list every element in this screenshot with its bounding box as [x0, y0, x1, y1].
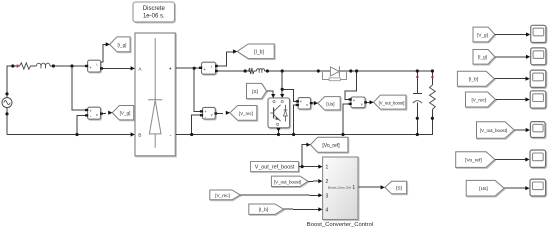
svg-text:[V_g]: [V_g] [477, 32, 488, 37]
svg-text:1e-06 s.: 1e-06 s. [143, 14, 165, 20]
goto tag V_rec [230, 106, 257, 121]
arrow into scope 2 [526, 55, 530, 59]
wire sensor to bridge A [101, 67, 131, 69]
node Vo_ref tap [301, 165, 304, 168]
from tag S [247, 83, 267, 98]
wire bridge plus output [175, 67, 200, 69]
wire I_b signal [216, 52, 233, 66]
svg-text:1: 1 [326, 165, 329, 171]
node cap to rail [416, 133, 419, 136]
svg-text:[Vo_ref]: [Vo_ref] [322, 143, 340, 149]
arrow into IGBT gate [271, 94, 275, 98]
goto tag V_out_boost [374, 95, 406, 109]
voltage measurement VM4 V_out [349, 97, 367, 108]
wire I_b tag to scope3 [494, 78, 526, 80]
from tag V_rec (scope row 4) [466, 92, 496, 107]
node IGBT collector tap [281, 69, 284, 72]
wire V_rec output [215, 112, 223, 114]
wire V_out_boost output [365, 101, 370, 103]
from tag Vo_ref (scope row 6) [456, 152, 495, 168]
node V_rec minus tap [190, 133, 193, 136]
wire RL to current sensor [50, 65, 87, 67]
wire I_b from-tag to port 4 [284, 208, 319, 210]
inductor Lb (boost branch, small) [257, 69, 265, 73]
voltage measurement VM2 [200, 107, 217, 119]
from tag I_g (scope row 2) [473, 50, 495, 65]
arrow into scope 3 [526, 77, 530, 81]
goto tag Vo_ref [311, 137, 348, 152]
node Rload top [431, 69, 434, 72]
from tag V_rec [210, 190, 240, 200]
wire S gate [267, 91, 274, 95]
scope 3 [530, 70, 546, 87]
arrow into V_out_boost tag [370, 100, 374, 104]
arrow into I_b tag [233, 49, 237, 53]
svg-text:[S]: [S] [252, 89, 258, 95]
node Us minus tap [292, 133, 295, 136]
wire V_out_boost plus branch [345, 71, 357, 99]
wire V_out_boost tag to scope5 [514, 129, 526, 131]
capacitor C (output) [413, 92, 422, 94]
wire capacitor branch top [416, 71, 418, 93]
from tag I_b (scope row 3) [457, 71, 494, 86]
wire V_g plus branch [72, 66, 86, 110]
node source-RL junction [11, 64, 14, 67]
node V_g minus tap [75, 133, 78, 136]
svg-text:1: 1 [352, 185, 355, 191]
resistor Rs (source branch) [20, 63, 37, 69]
scope 7 [530, 179, 546, 196]
arrow into port 4 [318, 207, 322, 211]
terminal marker red capacitor [416, 76, 418, 78]
svg-text:[I_g]: [I_g] [118, 42, 127, 47]
goto tag Us [318, 97, 340, 110]
node Us plus tap [281, 88, 284, 91]
svg-text:3: 3 [326, 193, 329, 199]
powergui block Discrete [133, 2, 175, 22]
arrow into port 2 [318, 179, 322, 183]
svg-text:Boost_Converter_Control: Boost_Converter_Control [307, 222, 373, 228]
constant V_out_ref_boost [251, 162, 299, 172]
wire V_g output [101, 113, 106, 115]
wire source bottom lead [6, 108, 8, 135]
arrow into scope 1 [526, 32, 530, 36]
svg-text:V_out_ref_boost: V_out_ref_boost [255, 165, 295, 171]
snubber network of diode D [323, 71, 347, 79]
terminal marker red Rload [431, 76, 433, 78]
svg-text:2: 2 [326, 179, 329, 185]
wire Vo_ref branch [302, 145, 306, 167]
wire V_rec plus branch [194, 68, 200, 111]
svg-text:[V_out_boost]: [V_out_boost] [274, 179, 301, 184]
terminal marker red source branch [17, 65, 19, 68]
scope 1 [531, 25, 546, 42]
wire Us tag to scope7 [504, 187, 526, 189]
svg-text:v: v [306, 103, 308, 107]
voltage measurement VM1 [85, 107, 103, 119]
svg-text:[Us]: [Us] [326, 101, 334, 106]
arrow into IGBT collector [280, 94, 284, 98]
arrow into Vo_ref tag [306, 143, 310, 147]
wire Us output [311, 102, 315, 104]
wire Us plus branch [282, 89, 296, 101]
from tag I_b [249, 204, 284, 214]
svg-text:[S]: [S] [396, 186, 402, 192]
from tag V_g (scope row 1) [473, 27, 495, 42]
svg-text:[V_rec]: [V_rec] [239, 111, 253, 116]
wire V_g tag to scope1 [495, 34, 526, 36]
wire capacitor branch bottom [416, 102, 418, 134]
arrow into Us tag [314, 101, 318, 105]
wire V_rec minus branch [192, 115, 201, 134]
arrow into bridge A [131, 66, 135, 70]
wire bottom-left rail to bridge B [7, 134, 131, 136]
svg-text:[V_rec]: [V_rec] [215, 193, 230, 198]
svg-text:[V_rec]: [V_rec] [472, 97, 487, 102]
arrow into I_g tag [106, 42, 110, 46]
svg-text:[Us]: [Us] [479, 186, 488, 192]
wire Vo_ref tag to scope6 [495, 159, 526, 161]
node V_out tap [355, 69, 358, 72]
node diode cathode [349, 69, 352, 72]
node capacitor bottom port [416, 117, 419, 120]
svg-text:+: + [89, 65, 92, 70]
node IGBT emitter tap [277, 133, 280, 136]
wire V_out_boost minus branch [343, 104, 350, 135]
arrow into V_g tag [108, 111, 112, 115]
arrow into scope 7 [525, 186, 529, 190]
wire constant to port 1 [299, 166, 319, 168]
from tag Us (scope row 7) [466, 180, 504, 196]
arrow into port 3 [318, 193, 322, 197]
svg-text:B: B [138, 133, 141, 139]
node source bottom port [5, 112, 8, 115]
current measurement CM1 [85, 60, 103, 72]
node capacitor top [416, 69, 419, 72]
node V_g tap [70, 64, 73, 67]
node boost RL left [244, 69, 247, 72]
resistor Rb (boost branch, small) [245, 68, 256, 74]
svg-text:[V_out_boost]: [V_out_boost] [379, 100, 405, 105]
svg-text:+: + [203, 67, 206, 72]
svg-text:4: 4 [326, 207, 329, 213]
svg-text:+: + [169, 67, 172, 73]
AC source V1 [2, 98, 12, 108]
universal bridge rectifier [135, 33, 175, 156]
from tag V_out_boost [271, 176, 308, 186]
wire IGBT collector branch [281, 71, 283, 95]
svg-text:v: v [96, 113, 98, 117]
arrow into scope 4 [526, 97, 530, 101]
svg-text:[I_b]: [I_b] [259, 207, 268, 213]
node V_rec plus tap [193, 67, 196, 70]
wire top rail left segment [216, 70, 245, 72]
wire V_rec tag to scope4 [495, 99, 525, 101]
arrow into port 1 [318, 165, 322, 169]
svg-text:[V_g]: [V_g] [120, 111, 131, 116]
node source top port [5, 92, 8, 95]
goto tag I_g [110, 37, 130, 52]
wire bottom-right rail [175, 134, 417, 136]
arrow into scope 6 [525, 157, 529, 161]
scope 4 [530, 91, 546, 108]
from tag V_out_boost (scope row 5) [477, 122, 515, 138]
svg-text:v: v [211, 113, 213, 117]
svg-text:-: - [170, 132, 172, 138]
wire V_g minus branch [77, 115, 86, 134]
svg-text:v: v [361, 102, 363, 106]
current measurement CM2 [199, 62, 218, 74]
scope 6 [530, 150, 546, 167]
wire V_rec from-tag to port 3 [240, 194, 318, 196]
node diode anode [317, 69, 320, 72]
node Rload bottom port [431, 117, 434, 120]
diode D boost [329, 66, 340, 81]
svg-text:Boost_Conv_Ctrl: Boost_Conv_Ctrl [328, 185, 351, 189]
IGBT switch block [268, 98, 290, 128]
svg-text:[I_g]: [I_g] [478, 55, 487, 60]
wire top rail right segment [265, 70, 433, 72]
arrow into V_rec tag [226, 111, 230, 115]
goto tag S output [385, 181, 407, 194]
wire V_out_boost from-tag to port 2 [308, 180, 319, 182]
arrow into S tag [381, 185, 385, 189]
svg-text:Discrete: Discrete [143, 6, 166, 12]
scope 5 [530, 122, 545, 138]
wire Us minus branch [294, 105, 297, 135]
arrow IGBT m port down [276, 128, 280, 132]
node boost RL right [266, 69, 269, 72]
arrow into bridge B [131, 132, 135, 136]
svg-text:[V_out_boost]: [V_out_boost] [480, 128, 507, 133]
goto tag I_b [237, 44, 274, 59]
wire source top lead [7, 66, 20, 98]
svg-text:[Vo_ref]: [Vo_ref] [465, 158, 482, 164]
scope 2 [531, 48, 546, 65]
wire I_g tag to scope2 [495, 56, 526, 58]
wire IGBT m to rail [278, 128, 280, 134]
voltage measurement VM3 Us [296, 98, 313, 109]
resistor Rload (output) [417, 71, 432, 135]
inductor Ls (source branch) [37, 63, 51, 68]
svg-text:[I_b]: [I_b] [254, 49, 264, 55]
subsystem Boost_Converter_Control [323, 157, 358, 220]
svg-text:[I_b]: [I_b] [469, 77, 478, 83]
goto tag V_g [112, 106, 133, 120]
wire controller output to S tag [358, 186, 381, 188]
terminal marker red boost branch [249, 70, 250, 73]
node RL output [52, 64, 55, 67]
wire I_g signal [101, 44, 106, 61]
node Vout minus tap [341, 133, 344, 136]
arrow into scope 5 [526, 128, 530, 132]
